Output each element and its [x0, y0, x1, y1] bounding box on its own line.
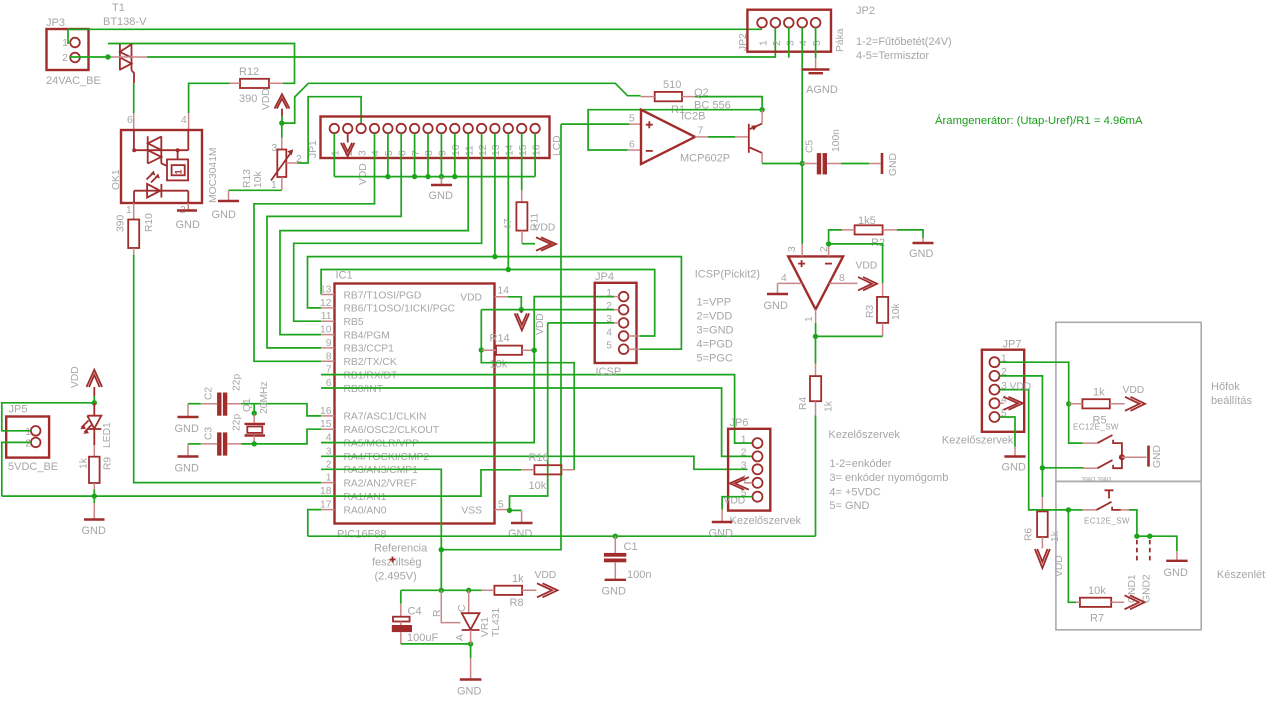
- svg-text:2=VDD: 2=VDD: [697, 311, 733, 323]
- svg-text:3: 3: [787, 246, 798, 252]
- capacitor C1 100n: [604, 536, 652, 581]
- node junctions on GND bus: [385, 174, 390, 179]
- power symbol VDD at IC2A pin8: [856, 261, 878, 291]
- svg-text:R13: R13: [242, 169, 253, 188]
- svg-text:2: 2: [62, 53, 68, 64]
- frame box Hőfok beállítás: [1056, 322, 1201, 481]
- wire VDD junction down to R13 pin3: [281, 123, 283, 137]
- svg-text:47: 47: [503, 218, 514, 230]
- wire JP6 pin5 to GND: [722, 497, 752, 510]
- svg-text:VDD: VDD: [535, 570, 557, 581]
- power symbol VDD (near R13): [261, 88, 290, 116]
- svg-text:100n: 100n: [627, 569, 651, 581]
- svg-text:C5: C5: [805, 140, 816, 153]
- wire long rail x561 (Uref to op-amp +): [441, 124, 561, 550]
- svg-text:feszültség: feszültség: [372, 557, 422, 569]
- svg-text:390: 390: [239, 93, 257, 105]
- IC U1 PIC16F88: [320, 270, 509, 541]
- svg-text:JP6: JP6: [730, 417, 749, 429]
- svg-text:Referencia: Referencia: [374, 543, 428, 555]
- power symbol VDD right of R11: [534, 223, 557, 251]
- frame box Készenlét: [1056, 481, 1201, 629]
- svg-text:11: 11: [464, 145, 475, 156]
- svg-text:VDD: VDD: [856, 261, 878, 272]
- ground right of R2: [909, 243, 934, 260]
- svg-text:5VDC_BE: 5VDC_BE: [8, 461, 58, 473]
- svg-text:12: 12: [478, 144, 489, 156]
- node C5 junction: [800, 161, 805, 166]
- resistor R14 10k (MCLR pullup): [481, 333, 534, 371]
- svg-text:5: 5: [812, 40, 823, 46]
- node Uref junction (to op-amp rail): [439, 547, 444, 552]
- wire IC1 RA4 to JP6 pin3: [321, 456, 747, 469]
- svg-text:JP5: JP5: [9, 404, 28, 416]
- svg-text:24VAC_BE: 24VAC_BE: [46, 75, 101, 87]
- svg-text:BC 556: BC 556: [694, 100, 731, 112]
- wire OK1 pin4 up to R12 left: [188, 113, 190, 130]
- wire C2 right to IC1 RA7 (OSC1): [241, 404, 321, 416]
- svg-text:C4: C4: [408, 606, 422, 618]
- pin stubs IC1 right side (VDD pin14, VSS pin5): [495, 297, 509, 510]
- node pushbutton junction: [1066, 507, 1071, 512]
- svg-text:VDD: VDD: [70, 366, 81, 388]
- wire VDD net down to R14 left: [480, 310, 482, 350]
- svg-text:1: 1: [271, 180, 277, 191]
- svg-text:RB6/T1OSO/1ICKI/PGC: RB6/T1OSO/1ICKI/PGC: [344, 304, 456, 315]
- svg-text:Áramgenerátor: (Utap-Uref)/R1: Áramgenerátor: (Utap-Uref)/R1 = 4.96mA: [935, 114, 1143, 127]
- wire JP1 pin12 to IC1 RB5: [294, 133, 482, 321]
- crystal Q1 20MHz: [242, 381, 270, 435]
- svg-text:1k: 1k: [512, 573, 524, 585]
- resistor R12 390: [230, 66, 284, 105]
- wire crystal bottom / C3 to IC1 RA6 (OSC2): [241, 429, 321, 444]
- connector JP5 (5VDC_BE): [6, 404, 58, 474]
- svg-text:Kezelőszervek: Kezelőszervek: [942, 434, 1014, 446]
- power symbol VDD at JP6 pin4 (pointing left): [724, 477, 753, 506]
- svg-text:VDD: VDD: [1054, 555, 1065, 577]
- svg-text:RB5: RB5: [344, 317, 364, 328]
- resistor R3 10k: [865, 297, 902, 323]
- ground below JP7: [1002, 457, 1027, 474]
- svg-text:3: 3: [741, 461, 747, 472]
- wire IC2B pin5 from x561 rail: [629, 123, 641, 125]
- capacitor C2 22p: [201, 374, 243, 416]
- svg-text:10k: 10k: [253, 171, 264, 188]
- power symbol VDD right of R5: [1123, 385, 1146, 411]
- ground below JP1 bus: [429, 177, 454, 202]
- pin stub IC2A pin4 to GND: [778, 282, 802, 284]
- wire Uref horizontal C4/R8: [401, 589, 482, 591]
- wire Q2 collector to AGND net: [762, 163, 802, 165]
- svg-text:RA3/AN3/CMP1: RA3/AN3/CMP1: [344, 465, 419, 476]
- svg-text:10k: 10k: [490, 359, 508, 371]
- svg-text:3=GND: 3=GND: [697, 325, 734, 337]
- svg-text:R8: R8: [510, 597, 524, 609]
- svg-text:1k: 1k: [1050, 530, 1061, 542]
- svg-text:1: 1: [126, 205, 132, 216]
- node Q2 emitter junction: [759, 107, 764, 112]
- svg-text:C1: C1: [624, 541, 638, 553]
- svg-text:GND: GND: [1164, 567, 1189, 579]
- svg-text:1k: 1k: [824, 400, 835, 412]
- connector JP6 (Kezelőszervek): [728, 417, 801, 527]
- pin stub IC2A pin8 to VDD: [829, 282, 857, 284]
- svg-text:GND: GND: [176, 219, 201, 231]
- dashed GND1 lead: [1136, 540, 1138, 563]
- ground AGND: [802, 70, 838, 97]
- svg-text:AGND: AGND: [806, 84, 838, 96]
- svg-text:VSS: VSS: [461, 505, 482, 516]
- op-amp IC2B MCP602P: [629, 110, 730, 165]
- resistor R9 1k: [79, 445, 114, 483]
- pin stub Q2 collector down: [761, 153, 763, 164]
- wire JP7 pin1 to encoder contact A: [1000, 362, 1083, 443]
- capacitor C3 22p: [201, 414, 243, 456]
- svg-text:EC12E_SW: EC12E_SW: [1073, 423, 1119, 432]
- node VSS junction: [507, 508, 512, 513]
- switch SW1 encoder contact A: [1083, 435, 1122, 457]
- svg-text:VDD: VDD: [1123, 385, 1145, 396]
- wire JP5 pin2 to R9 bottom node: [2, 442, 31, 496]
- wire R10 bottom to IC1 RA2 (pin1): [134, 255, 321, 483]
- pin stub OK1 pin2: [187, 203, 189, 210]
- svg-text:1-2=Fűtőbetét(24V): 1-2=Fűtőbetét(24V): [856, 36, 952, 48]
- ground at IC1 VSS: [508, 510, 533, 540]
- ground below JP6: [709, 522, 734, 540]
- svg-text:TL431: TL431: [491, 608, 502, 637]
- svg-text:390: 390: [116, 215, 127, 232]
- svg-text:1: 1: [741, 434, 747, 445]
- node junction at x108 y57: [105, 54, 110, 59]
- connector JP7 (Kezelőszervek panel): [942, 339, 1024, 447]
- svg-text:14: 14: [505, 144, 516, 156]
- power symbol VDD (pointing down, near R14): [515, 310, 546, 335]
- svg-text:MCP602P: MCP602P: [680, 153, 730, 165]
- power symbol VDD above LED1: [70, 366, 102, 396]
- svg-text:RB0/INT: RB0/INT: [344, 384, 384, 395]
- svg-text:beállítás: beállítás: [1211, 395, 1252, 407]
- svg-text:2: 2: [25, 438, 31, 449]
- wire R13 wiper to JP1 pin3 (LCD contrast): [286, 162, 297, 164]
- pin stub OK1 pin1: [133, 203, 135, 220]
- wire output node down to R4: [815, 336, 817, 363]
- svg-text:JP7: JP7: [1003, 339, 1022, 351]
- ground at IC2A pin4: [764, 294, 789, 312]
- svg-text:JP3: JP3: [46, 17, 65, 29]
- svg-text:4-5=Termisztor: 4-5=Termisztor: [856, 50, 929, 62]
- svg-text:JP4: JP4: [595, 271, 614, 283]
- wire R4 bottom to bottom bus: [815, 415, 817, 536]
- svg-text:GND2: GND2: [1142, 574, 1153, 603]
- switch SW1 encoder contact B: [1083, 457, 1122, 468]
- resistor R6 1k: [1024, 511, 1062, 542]
- svg-text:16: 16: [531, 144, 542, 156]
- svg-text:1-2=enkóder: 1-2=enkóder: [829, 458, 891, 470]
- svg-text:T1: T1: [112, 2, 125, 14]
- wire R3 bottom to output node: [816, 335, 883, 337]
- ground below OK1 pin2: [176, 211, 201, 232]
- wire JP3 pin2 segment: [70, 56, 111, 58]
- svg-text:2: 2: [606, 301, 612, 312]
- wire R14 right down to IC1 RA5/MCLR: [321, 350, 534, 442]
- ground left of C2: [175, 417, 200, 435]
- wire bottom GND bus: [308, 535, 816, 537]
- resistor R2 1k5: [842, 215, 897, 249]
- svg-text:10: 10: [451, 144, 462, 156]
- ground below C1: [602, 580, 627, 598]
- wire IC1 RB7 / JP1 pin14 / JP4 pin4 (PGD net): [321, 270, 655, 337]
- svg-text:GND: GND: [175, 423, 200, 435]
- svg-text:4: 4: [606, 327, 612, 338]
- svg-text:Páka: Páka: [835, 28, 846, 52]
- svg-text:R: R: [432, 610, 443, 617]
- svg-text:14: 14: [498, 286, 510, 297]
- svg-text:2: 2: [772, 40, 783, 46]
- wire VDD branch down to R16 right: [481, 350, 574, 470]
- svg-text:15: 15: [518, 144, 529, 156]
- dashed GND2 lead: [1149, 540, 1151, 563]
- pin stub triac gate/MT1: [111, 56, 147, 58]
- wire triac MT1 to JP2 pin2: [147, 28, 776, 58]
- connector JP2 (Páka): [738, 10, 846, 52]
- node IC2A output junction: [813, 334, 818, 339]
- wire JP5 pin1 to VDD/LED node: [2, 403, 95, 431]
- wire JP4 pin3 GND line down to VSS: [548, 322, 614, 324]
- svg-text:1: 1: [25, 427, 31, 438]
- svg-text:4: 4: [371, 150, 382, 156]
- svg-text:RA6/OSC2/CLKOUT: RA6/OSC2/CLKOUT: [344, 425, 440, 436]
- svg-text:C: C: [457, 604, 468, 612]
- svg-text:GND: GND: [429, 190, 454, 202]
- svg-text:GND: GND: [764, 300, 789, 312]
- svg-text:OK1: OK1: [111, 169, 122, 190]
- wire pin2 node down to R6: [1041, 468, 1043, 497]
- wire junction up to y43.5 over to R12 right: [108, 44, 295, 84]
- wire VDD junction diagonal to the VDD rail y83 heading to R1: [282, 83, 641, 123]
- wire pushbutton node down to R7: [1068, 510, 1076, 602]
- svg-text:VR1: VR1: [480, 617, 491, 637]
- pin stub IC2A pin2: [828, 244, 830, 257]
- svg-text:1: 1: [759, 40, 770, 46]
- wire JP1 pin4 to IC1 RB2: [254, 133, 375, 361]
- svg-text:RA5/MCLR/VPP: RA5/MCLR/VPP: [344, 438, 420, 449]
- capacitor C5 100n: [802, 129, 842, 175]
- wire C2 left to GND: [188, 403, 201, 405]
- svg-text:C3: C3: [204, 427, 215, 440]
- svg-text:VDD: VDD: [460, 293, 482, 304]
- svg-text:1k5: 1k5: [858, 215, 876, 227]
- svg-text:ICSP: ICSP: [596, 366, 622, 378]
- svg-text:VDD: VDD: [358, 163, 369, 185]
- node encoder common junction (red): [1119, 454, 1125, 460]
- svg-text:1: 1: [804, 316, 815, 322]
- svg-text:Kezelőszervek: Kezelőszervek: [828, 429, 900, 441]
- svg-text:Kezelőszervek: Kezelőszervek: [730, 515, 802, 527]
- wire R14 right up to JP4 pin1 (VPP): [534, 297, 614, 351]
- svg-text:100uF: 100uF: [407, 632, 438, 644]
- svg-text:R9: R9: [103, 457, 114, 470]
- optocoupler OK1 MOC3041M: [111, 115, 219, 216]
- wire R13 pin1 to GND: [281, 177, 283, 190]
- svg-text:RA4/TOCKI/CMP2: RA4/TOCKI/CMP2: [344, 452, 430, 463]
- svg-text:JP2: JP2: [856, 5, 875, 17]
- svg-text:RA7/ASC1/CLKIN: RA7/ASC1/CLKIN: [344, 412, 427, 423]
- svg-text:RA0/AN0: RA0/AN0: [344, 505, 387, 516]
- node C1 junction on bus: [613, 534, 618, 539]
- svg-text:R4: R4: [798, 397, 809, 410]
- svg-text:RB4/PGM: RB4/PGM: [344, 330, 390, 341]
- connector JP3 (24VAC_BE): [46, 17, 101, 87]
- resistor R1 510: [641, 79, 695, 116]
- wire crystal top branch: [253, 404, 255, 415]
- svg-text:5: 5: [384, 150, 395, 156]
- wire R9 node to GND: [93, 496, 95, 503]
- wire JP2 pin3 stub: [788, 28, 790, 58]
- trimmer R13 10k: [242, 143, 302, 191]
- wire IC2B output to Q2 base: [695, 136, 708, 138]
- wire JP3 pin1 to JP2 pin1 (24VAC line): [68, 29, 762, 44]
- wire JP7 pin3 down to pushbutton: [1000, 390, 1069, 510]
- LED LED1: [80, 403, 113, 448]
- wire IC1 RB0 to JP6 pin2: [321, 388, 752, 456]
- svg-text:A: A: [455, 634, 466, 641]
- svg-text:LED1: LED1: [102, 422, 113, 448]
- svg-text:4: 4: [799, 40, 810, 46]
- svg-text:1=VPP: 1=VPP: [697, 297, 732, 309]
- svg-text:Készenlét: Készenlét: [1217, 569, 1265, 581]
- svg-text:GND: GND: [175, 463, 200, 475]
- svg-text:1k: 1k: [1093, 387, 1105, 399]
- pin stub IC2A pin1 output: [815, 309, 817, 323]
- wire IC1 RB6 / JP1 pin13 / JP4 pin5 (PGC net): [308, 257, 682, 350]
- svg-text:JP2: JP2: [738, 33, 749, 51]
- svg-text:6: 6: [397, 150, 408, 156]
- wire JP1 pin1 to GND bus: [333, 133, 335, 176]
- resistor R11 47: [503, 202, 541, 231]
- resistor R8 1k: [482, 573, 537, 609]
- svg-text:VDD: VDD: [534, 223, 556, 234]
- connector JP4 (ICSP): [595, 271, 640, 378]
- resistor R10 390: [116, 213, 156, 248]
- svg-text:7: 7: [698, 126, 704, 137]
- svg-text:MOC3041M: MOC3041M: [208, 147, 219, 203]
- svg-text:10k: 10k: [1088, 585, 1106, 597]
- svg-text:5: 5: [606, 341, 612, 352]
- wire VDD net to JP4 pin2: [481, 309, 614, 311]
- svg-text:BT138-V: BT138-V: [103, 16, 147, 28]
- wire feedback from emitter node to IC2B pin6: [588, 110, 762, 150]
- svg-text:4: 4: [781, 273, 787, 284]
- svg-text:IC2B: IC2B: [681, 111, 705, 123]
- svg-text:RB1/RX/DT: RB1/RX/DT: [344, 370, 398, 381]
- svg-text:510: 510: [663, 79, 681, 91]
- power symbol VDD right of R7: [1125, 595, 1145, 609]
- pin stubs IC1 left side: [321, 295, 334, 510]
- svg-text:GND: GND: [82, 525, 107, 537]
- wire IC1 pin14 to VDD node: [508, 297, 521, 309]
- svg-text:R7: R7: [1090, 613, 1104, 625]
- wire JP7 pin2 to encoder B / R6: [1000, 376, 1043, 468]
- pin stub IC2A pin3: [801, 244, 803, 257]
- svg-text:2: 2: [741, 448, 747, 459]
- svg-text:10k: 10k: [529, 480, 547, 492]
- ground below VR1: [457, 680, 482, 698]
- svg-text:4= +5VDC: 4= +5VDC: [829, 486, 880, 498]
- ground below R9: [82, 520, 107, 538]
- ground right of C5 (rotated): [881, 153, 899, 176]
- svg-text:7: 7: [411, 150, 422, 156]
- svg-text:3: 3: [357, 150, 368, 156]
- svg-text:RB2/TX/CK: RB2/TX/CK: [344, 357, 397, 368]
- svg-text:GND: GND: [1002, 462, 1027, 474]
- svg-text:JP1: JP1: [308, 140, 319, 158]
- triac T1 BT138-V: [103, 2, 147, 70]
- svg-text:10k: 10k: [891, 303, 902, 320]
- transistor Q2 BC 556 (PNP): [694, 87, 762, 153]
- power symbol VDD at JP1 pin2 (pointing down): [341, 133, 369, 185]
- resistor R5 1k: [1069, 387, 1125, 427]
- power symbol VDD right of R8: [535, 570, 558, 597]
- wire JP2 pin5 to AGND: [815, 28, 817, 59]
- svg-text:GND: GND: [602, 586, 627, 598]
- svg-text:RB7/T1OSI/PGD: RB7/T1OSI/PGD: [344, 290, 422, 301]
- svg-text:9: 9: [438, 150, 449, 156]
- node VDD junction at pin14: [519, 307, 524, 312]
- svg-text:3: 3: [606, 314, 612, 325]
- node R9 bottom junction: [92, 493, 97, 498]
- connector JP1 (LCD, 16 pins): [308, 117, 563, 159]
- svg-text:3: 3: [785, 40, 796, 46]
- op-amp IC2A (triangle pointing down): [781, 246, 845, 322]
- svg-text:1: 1: [331, 150, 342, 156]
- svg-text:R3: R3: [865, 305, 876, 318]
- svg-text:4=PGD: 4=PGD: [697, 339, 733, 351]
- svg-text:VDD: VDD: [261, 88, 272, 110]
- resistor R16 10k: [521, 452, 574, 492]
- svg-text:R14: R14: [490, 333, 510, 345]
- svg-text:22p: 22p: [232, 374, 243, 391]
- svg-text:GND: GND: [508, 528, 533, 540]
- ground left of C3: [175, 457, 200, 475]
- svg-text:22p: 22p: [232, 414, 243, 431]
- resistor R4 1k: [798, 376, 835, 412]
- wire JP1 pin11 to IC1 RB4: [280, 133, 468, 334]
- svg-text:GND: GND: [212, 209, 237, 221]
- pin stub Q2 emitter up to node: [761, 110, 763, 124]
- svg-text:GND: GND: [457, 686, 482, 698]
- node LED anode junction: [92, 400, 97, 405]
- wire GND bus under JP1: [334, 176, 535, 178]
- svg-text:R12: R12: [239, 66, 259, 78]
- svg-text:VDD: VDD: [1010, 382, 1032, 393]
- wire R1 right down to Q2 emitter node: [695, 97, 762, 110]
- power symbol VDD below R6 (pointing down): [1035, 549, 1065, 577]
- wire C3 left to GND: [188, 443, 201, 445]
- wire JP1 pin6 to IC1 RB3: [267, 133, 401, 348]
- wire triac MT2 down to OK1 pin6: [132, 70, 135, 83]
- power symbol VDD at JP7 pin4: [1000, 382, 1032, 410]
- svg-text:20MHz: 20MHz: [259, 381, 270, 414]
- pushbutton EC12E_SW (switch section): [1068, 490, 1130, 525]
- wire pushbutton right to GND dashes: [1121, 509, 1129, 511]
- svg-text:GND: GND: [888, 153, 899, 176]
- shunt reference VR1 TL431: [432, 590, 502, 644]
- svg-text:4: 4: [181, 115, 187, 126]
- svg-text:1: 1: [606, 288, 612, 299]
- svg-text:SW1 SW1: SW1 SW1: [1082, 477, 1112, 484]
- svg-text:PIC16F88: PIC16F88: [337, 529, 387, 541]
- node IC2A pin2 junction: [826, 241, 831, 246]
